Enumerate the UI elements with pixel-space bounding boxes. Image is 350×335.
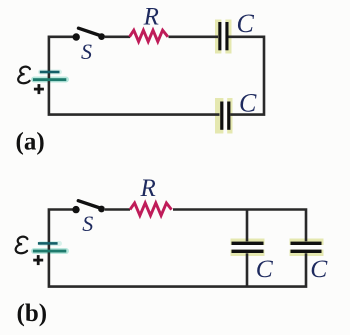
svg-text:C: C <box>256 254 274 283</box>
svg-text:S: S <box>81 39 92 64</box>
svg-text:R: R <box>140 175 156 202</box>
svg-text:C: C <box>239 89 257 118</box>
svg-text:(a): (a) <box>16 129 45 156</box>
svg-text:R: R <box>143 4 159 31</box>
svg-text:S: S <box>82 211 93 236</box>
svg-text:C: C <box>310 254 328 283</box>
svg-text:(b): (b) <box>17 300 48 327</box>
svg-text:C: C <box>237 9 255 38</box>
